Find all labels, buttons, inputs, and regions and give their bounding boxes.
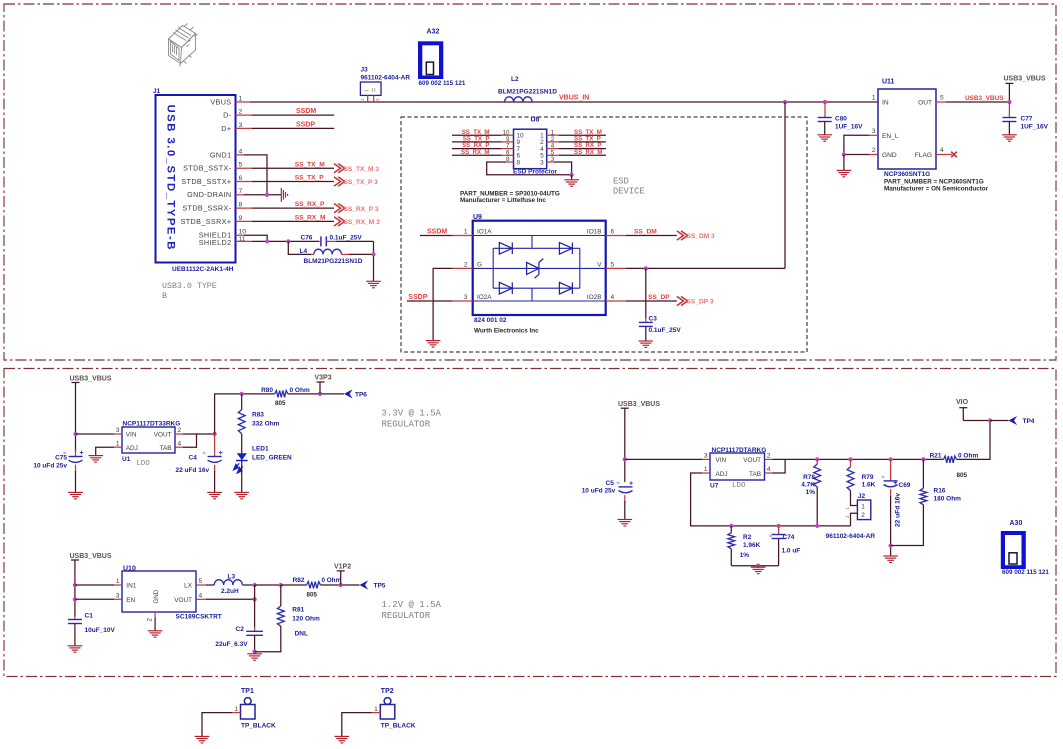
svg-text:0 Ohm: 0 Ohm	[958, 452, 978, 459]
svg-text:C76: C76	[301, 234, 313, 241]
svg-text:609 002 115 121: 609 002 115 121	[1002, 569, 1049, 576]
svg-text:1: 1	[234, 706, 238, 713]
node VBUS/C80 junction	[823, 100, 827, 104]
svg-text:22 uFd 16v: 22 uFd 16v	[176, 467, 210, 474]
wire U10 GND pin to ground	[154, 612, 156, 619]
wire VOUT	[175, 433, 183, 435]
svg-text:SS_RX_M: SS_RX_M	[461, 149, 489, 156]
svg-text:VIO: VIO	[956, 399, 969, 406]
svg-text:R16: R16	[934, 488, 946, 495]
wire VOUT U10	[196, 598, 206, 600]
ground under C4	[207, 492, 222, 498]
svg-text:22uF_6.3V: 22uF_6.3V	[215, 641, 248, 648]
wire VOUT rail up/right	[215, 394, 275, 434]
svg-text:10 uFd 25v: 10 uFd 25v	[33, 463, 67, 470]
node C69/R16 bottom junction	[888, 543, 892, 547]
wire SS_RX_M right of U8	[547, 154, 559, 156]
svg-text:3: 3	[540, 159, 544, 166]
off-page connector SS_DM 3	[677, 231, 688, 240]
svg-text:C77: C77	[1021, 116, 1033, 123]
svg-text:1: 1	[845, 507, 850, 510]
svg-text:≈: ≈	[769, 533, 772, 539]
svg-text:6: 6	[611, 229, 615, 236]
svg-text:USB3_VBUS: USB3_VBUS	[1004, 76, 1046, 83]
svg-text:STDB_SSTX-: STDB_SSTX-	[183, 164, 232, 173]
svg-text:1: 1	[116, 578, 120, 585]
resistor R78	[816, 459, 818, 464]
ground under C80	[817, 135, 832, 141]
pin 8 U8 wire	[506, 161, 514, 163]
svg-text:TP2: TP2	[381, 688, 394, 695]
svg-text:DEVICE: DEVICE	[613, 187, 645, 197]
ground at U8	[564, 180, 579, 186]
svg-text:IO1A: IO1A	[477, 228, 492, 235]
svg-text:≈: ≈	[616, 481, 619, 487]
svg-text:961102-6404-AR: 961102-6404-AR	[826, 533, 876, 540]
svg-text:2: 2	[464, 262, 468, 269]
svg-text:Manufacturer = ON Semiconducto: Manufacturer = ON Semiconductor	[884, 185, 989, 192]
svg-text:A32: A32	[427, 29, 440, 36]
wire ADJ loop	[702, 472, 710, 474]
svg-text:9: 9	[239, 215, 243, 222]
svg-text:1: 1	[861, 503, 865, 510]
svg-text:4: 4	[239, 148, 243, 155]
svg-text:USB3_VBUS: USB3_VBUS	[965, 95, 1004, 102]
node R83 junction	[240, 392, 244, 396]
svg-text:TP5: TP5	[374, 583, 386, 590]
svg-text:+: +	[893, 480, 897, 487]
svg-text:2: 2	[845, 515, 850, 518]
wire EN_L to GND	[869, 134, 878, 136]
svg-text:ESD: ESD	[613, 177, 629, 187]
svg-text:10uF_10V: 10uF_10V	[85, 627, 116, 634]
svg-text:3: 3	[116, 427, 120, 434]
node R78 bottom junction	[815, 524, 819, 528]
svg-text:L3: L3	[228, 573, 236, 580]
wire SS_RX_P from J1	[236, 207, 253, 209]
svg-text:4.7K: 4.7K	[801, 482, 815, 489]
svg-text:ADJ: ADJ	[126, 445, 138, 452]
svg-text:J3: J3	[361, 67, 369, 74]
svg-text:SS_RX_P: SS_RX_P	[295, 201, 325, 208]
wire IO2B to SS_DP	[606, 300, 626, 302]
wire SS_TX_M right of U8	[547, 134, 559, 136]
svg-text:1: 1	[116, 440, 120, 447]
svg-text:C5: C5	[606, 480, 615, 487]
svg-text:0.1uF_25V: 0.1uF_25V	[649, 327, 682, 334]
wire SSDP into U9	[407, 300, 453, 302]
svg-text:U8: U8	[531, 117, 540, 124]
svg-text:C1: C1	[85, 613, 94, 620]
svg-text:2.2uH: 2.2uH	[221, 588, 239, 595]
svg-text:Wurth Electronics Inc: Wurth Electronics Inc	[474, 328, 539, 335]
node EN junction	[73, 597, 77, 601]
svg-text:805: 805	[307, 591, 318, 598]
resistor R83	[241, 394, 243, 410]
wire ADJ to ground	[114, 446, 122, 448]
svg-text:LDO: LDO	[136, 460, 150, 468]
svg-text:4: 4	[611, 294, 615, 301]
wire SS_RX_P right of U8	[547, 148, 559, 150]
svg-text:2: 2	[872, 147, 876, 154]
ground under L4	[366, 281, 381, 288]
ground under C75	[68, 492, 83, 498]
svg-text:4: 4	[940, 147, 944, 154]
svg-text:STDB_SSRX+: STDB_SSRX+	[181, 217, 232, 226]
wire GND1 to GND-DRAIN	[236, 154, 245, 156]
node GND-DRAIN junction	[265, 193, 269, 197]
svg-text:2: 2	[239, 109, 243, 116]
svg-text:LDO: LDO	[732, 482, 746, 490]
svg-text:EN_L: EN_L	[882, 133, 899, 140]
svg-text:4: 4	[767, 466, 771, 473]
svg-text:VBUS_IN: VBUS_IN	[559, 94, 589, 101]
node R16 top junction	[921, 457, 925, 461]
svg-text:L4: L4	[300, 248, 308, 255]
node VIN junction	[73, 432, 77, 436]
node VOUT/C2 junction	[252, 597, 256, 601]
svg-text:LX: LX	[184, 583, 193, 590]
svg-text:C75: C75	[55, 455, 67, 462]
ground at U10	[148, 631, 163, 637]
svg-text:B: B	[162, 292, 167, 301]
wire V pin to VBUS_IN	[606, 267, 626, 269]
svg-text:TP1: TP1	[241, 688, 254, 695]
svg-text:1: 1	[872, 95, 876, 102]
test point TP5	[360, 580, 369, 589]
svg-text:D-: D-	[223, 111, 232, 120]
ground under TP2	[335, 736, 350, 743]
svg-text:UEB1112C-2AK1-4H: UEB1112C-2AK1-4H	[172, 266, 234, 273]
wire GND pin	[869, 154, 878, 156]
svg-text:GND: GND	[153, 589, 160, 603]
svg-text:G: G	[477, 261, 482, 268]
svg-text:GND1: GND1	[210, 150, 232, 159]
LED LED1	[241, 434, 243, 454]
wire SS_TX_P from J1	[236, 181, 253, 183]
ground under C77	[1002, 135, 1017, 141]
svg-text:2: 2	[767, 453, 771, 460]
svg-text:2: 2	[147, 618, 154, 622]
node C2/R81 bottom junction	[252, 650, 256, 654]
wire SSDM into U9	[420, 235, 453, 237]
wire VIN	[76, 433, 115, 435]
wire SS_RX_P left of U8	[452, 148, 502, 150]
svg-text:R79: R79	[862, 474, 874, 481]
svg-text:+: +	[629, 480, 633, 487]
svg-text:R21: R21	[930, 452, 942, 459]
svg-text:1.0 uF: 1.0 uF	[782, 547, 801, 554]
wire TP1 to ground	[202, 713, 232, 737]
svg-text:120 Ohm: 120 Ohm	[292, 616, 320, 623]
svg-text:C3: C3	[649, 316, 658, 323]
node V/C3 junction	[644, 266, 648, 270]
svg-text:10: 10	[239, 229, 247, 236]
middle sheet dash-dot border	[4, 369, 1056, 677]
wire G pin to ground	[453, 267, 473, 269]
USB connector 3D icon	[169, 24, 198, 67]
node TP4 junction	[988, 418, 992, 422]
svg-text:7: 7	[239, 188, 243, 195]
wire SS_TX_P left of U8	[452, 141, 502, 143]
capacitor C76	[321, 236, 326, 246]
svg-text:2: 2	[375, 98, 380, 101]
svg-text:3: 3	[464, 294, 468, 301]
svg-text:U7: U7	[710, 483, 719, 490]
wire SS_TX_M left of U8	[452, 134, 502, 136]
svg-text:C80: C80	[835, 116, 847, 123]
svg-text:SS_TX_M: SS_TX_M	[295, 161, 326, 168]
wire IN1	[75, 584, 114, 586]
svg-text:SS_RX_M 3: SS_RX_M 3	[344, 219, 381, 226]
svg-text:1%: 1%	[740, 552, 750, 559]
resistor R21	[944, 456, 957, 463]
svg-text:ADJ: ADJ	[716, 471, 728, 478]
svg-text:805: 805	[275, 400, 286, 407]
wire branch down to L4	[288, 241, 311, 254]
node R79 top junction	[848, 457, 852, 461]
resistor R80	[275, 391, 288, 398]
ferrite bead L4	[314, 249, 342, 254]
capacitor C1	[74, 616, 76, 619]
svg-text:961102-6404-AR: 961102-6404-AR	[361, 75, 411, 82]
svg-text:3: 3	[239, 122, 243, 129]
svg-text:10 uFd 25v: 10 uFd 25v	[582, 487, 616, 494]
svg-text:SS_DP 3: SS_DP 3	[687, 299, 714, 306]
ground under TP1	[195, 736, 210, 743]
svg-text:824 001 02: 824 001 02	[474, 317, 507, 324]
svg-text:0 Ohm: 0 Ohm	[322, 577, 342, 584]
svg-text:SHIELD2: SHIELD2	[199, 238, 232, 247]
wire IO1B to SS_DM	[606, 235, 626, 237]
svg-text:1: 1	[464, 229, 468, 236]
svg-text:FLAG: FLAG	[915, 152, 932, 159]
svg-text:3: 3	[116, 593, 120, 600]
svg-text:SS_RX_P 3: SS_RX_P 3	[344, 206, 379, 213]
off-page connector SS_DP 3	[677, 296, 688, 305]
svg-text:TP6: TP6	[355, 391, 367, 398]
svg-text:SS_DM: SS_DM	[634, 228, 657, 235]
svg-text:L2: L2	[511, 76, 519, 83]
wire TAB up to VOUT	[175, 446, 183, 448]
svg-text:3: 3	[704, 453, 708, 460]
node SHIELD junction	[265, 239, 269, 243]
svg-text:A30: A30	[1010, 520, 1023, 527]
svg-text:LED_GREEN: LED_GREEN	[252, 455, 292, 462]
svg-text:REGULATOR: REGULATOR	[382, 420, 431, 430]
wire VBUS net (J1 pin1 to U11)	[236, 101, 251, 103]
wire V up to VBUS rail	[784, 102, 786, 268]
wire R2/C74 bottom rail	[731, 565, 778, 567]
wire TAB up	[765, 472, 773, 474]
svg-text:GND: GND	[882, 152, 897, 159]
capacitor C80	[824, 102, 826, 117]
wire SS_TX_M from J1	[236, 167, 253, 169]
off-page connector SS_RX_M 3	[334, 217, 345, 226]
svg-text:IO1B: IO1B	[587, 228, 602, 235]
node R78 top junction	[815, 457, 819, 461]
node R81 junction	[279, 583, 283, 587]
svg-text:USB3_VBUS: USB3_VBUS	[70, 375, 112, 382]
svg-text:V3P3: V3P3	[315, 375, 332, 382]
wire EN	[75, 598, 114, 600]
resistor R82	[307, 582, 321, 589]
wire SS_RX_M from J1	[236, 220, 253, 222]
ground under C69	[883, 556, 898, 563]
node EN_L/GND junction	[842, 152, 846, 156]
U9 internal rails	[473, 236, 606, 302]
capacitor C2	[246, 631, 263, 635]
ESD section dashed box	[401, 117, 807, 352]
pin 2 J3	[373, 95, 375, 102]
svg-text:805: 805	[957, 472, 968, 479]
node C74 top junction	[776, 524, 780, 528]
svg-text:1: 1	[374, 706, 378, 713]
svg-text:V1P2: V1P2	[334, 564, 351, 571]
svg-text:R2: R2	[743, 534, 752, 541]
node C76/L4 branch	[286, 239, 290, 243]
svg-text:USB3.0 TYPE: USB3.0 TYPE	[162, 282, 217, 291]
svg-text:SSDM: SSDM	[427, 228, 447, 235]
ground under C2	[247, 654, 262, 660]
capacitor C75	[75, 449, 77, 456]
svg-text:EN: EN	[126, 597, 135, 604]
svg-text:8: 8	[517, 159, 521, 166]
svg-text:IO2A: IO2A	[477, 294, 492, 301]
ground under C1	[68, 646, 83, 652]
svg-text:0 Ohm: 0 Ohm	[290, 387, 310, 394]
svg-text:VOUT: VOUT	[154, 432, 172, 439]
svg-text:3: 3	[872, 128, 876, 135]
svg-text:SSDP: SSDP	[408, 294, 427, 301]
resistor R16	[922, 459, 924, 488]
wire SS_RX_M left of U8	[452, 154, 502, 156]
svg-text:1.96K: 1.96K	[743, 542, 761, 549]
wire C76/L4 join down to ground	[373, 241, 375, 281]
svg-text:STDB_SSTX+: STDB_SSTX+	[181, 177, 231, 186]
svg-text:IN1: IN1	[126, 583, 136, 590]
node U8 ground junction	[569, 173, 573, 177]
svg-text:+: +	[219, 450, 223, 457]
svg-text:6: 6	[239, 175, 243, 182]
svg-text:SS_RX_M: SS_RX_M	[295, 215, 326, 222]
svg-text:ESD Protector: ESD Protector	[513, 168, 558, 175]
svg-text:C2: C2	[236, 626, 245, 633]
top sheet dash-dot border	[4, 4, 1056, 360]
node U7 VIN junction	[623, 457, 627, 461]
svg-text:OUT: OUT	[918, 100, 932, 107]
off-page connector SS_TX_M 3	[334, 164, 345, 173]
svg-text:SC189CSKTRT: SC189CSKTRT	[176, 613, 222, 620]
node ground junction	[756, 564, 760, 568]
pin 3 U8 wire	[547, 161, 554, 163]
node IN1 junction	[73, 583, 77, 587]
ground under C5	[618, 520, 633, 527]
svg-text:SS_TX_P 3: SS_TX_P 3	[344, 179, 379, 186]
svg-text:2: 2	[178, 427, 182, 434]
wire D+ (SSDP)	[236, 127, 253, 129]
svg-text:5: 5	[199, 578, 203, 585]
wire D- (SSDM)	[236, 114, 253, 116]
svg-text:BLM21PG221SN1D: BLM21PG221SN1D	[498, 89, 557, 96]
svg-text:VOUT: VOUT	[174, 597, 192, 604]
svg-text:C74: C74	[783, 534, 795, 541]
pin 1 J3	[367, 95, 369, 102]
svg-text:4: 4	[178, 440, 182, 447]
svg-text:1UF_16V: 1UF_16V	[1021, 124, 1049, 131]
no-connect X on FLAG pin 4	[936, 154, 952, 156]
svg-text:DNL: DNL	[295, 631, 308, 638]
svg-text:1: 1	[704, 466, 708, 473]
ground at U9 G pin	[426, 341, 441, 348]
svg-text:22 uFd 16v: 22 uFd 16v	[895, 493, 902, 527]
svg-text:5: 5	[611, 262, 615, 269]
svg-text:J2: J2	[858, 493, 866, 500]
svg-text:TP4: TP4	[1023, 418, 1035, 425]
svg-text:5: 5	[940, 95, 944, 102]
svg-text:1UF_16V: 1UF_16V	[835, 124, 863, 131]
svg-text:NCP360SNT1G: NCP360SNT1G	[884, 171, 930, 178]
ground under R2/C74	[751, 567, 766, 574]
svg-text:SS_RX_M: SS_RX_M	[574, 149, 602, 156]
svg-text:180 Ohm: 180 Ohm	[934, 496, 962, 503]
svg-text:V: V	[597, 261, 602, 268]
wire OUT to USB3_VBUS	[936, 101, 946, 103]
svg-text:R81: R81	[292, 607, 304, 614]
test point TP4	[990, 420, 1009, 422]
svg-text:≈: ≈	[881, 475, 884, 481]
svg-text:USB 3.0_STD_TYPE-B: USB 3.0_STD_TYPE-B	[165, 105, 177, 251]
wire VIN U7	[625, 458, 702, 460]
svg-text:TAB: TAB	[160, 445, 172, 452]
wire GND-DRAIN	[236, 194, 245, 196]
ground under LED1	[234, 492, 249, 498]
svg-text:1.2V @ 1.5A: 1.2V @ 1.5A	[382, 600, 442, 610]
node VBUS/U9-V junction	[783, 100, 787, 104]
svg-text:TP_BLACK: TP_BLACK	[241, 722, 276, 729]
svg-text:8: 8	[239, 202, 243, 209]
svg-text:IN: IN	[882, 100, 889, 107]
svg-text:2: 2	[861, 512, 865, 519]
svg-text:REGULATOR: REGULATOR	[382, 611, 431, 621]
ground at U11	[837, 170, 852, 176]
svg-text:SS_DP: SS_DP	[648, 294, 670, 301]
wire VOUT rail	[765, 458, 773, 460]
off-page connector SS_TX_P 3	[334, 177, 345, 186]
off-page connector SS_RX_P 3	[334, 204, 345, 213]
node L4 out junction	[371, 252, 375, 256]
svg-text:+: +	[80, 450, 84, 457]
wire SS_TX_P right of U8	[547, 141, 559, 143]
inductor L3	[196, 584, 206, 586]
svg-text:D+: D+	[221, 124, 231, 133]
capacitor C3	[645, 268, 647, 318]
svg-text:SS_DM 3: SS_DM 3	[687, 233, 716, 240]
node C69 top junction	[888, 457, 892, 461]
svg-text:1: 1	[239, 95, 243, 102]
ground under C3	[639, 341, 654, 347]
svg-text:C4: C4	[189, 455, 198, 462]
node R2 top junction	[729, 524, 733, 528]
svg-text:VBUS: VBUS	[210, 97, 231, 106]
svg-text:VIN: VIN	[716, 457, 727, 464]
ground at U1 ADJ	[88, 456, 103, 463]
svg-text:USB3_VBUS: USB3_VBUS	[70, 553, 112, 560]
svg-text:R78: R78	[803, 474, 815, 481]
wire SHIELD2	[236, 240, 253, 242]
svg-text:SS_TX_P: SS_TX_P	[295, 175, 325, 182]
svg-text:1%: 1%	[806, 489, 816, 496]
